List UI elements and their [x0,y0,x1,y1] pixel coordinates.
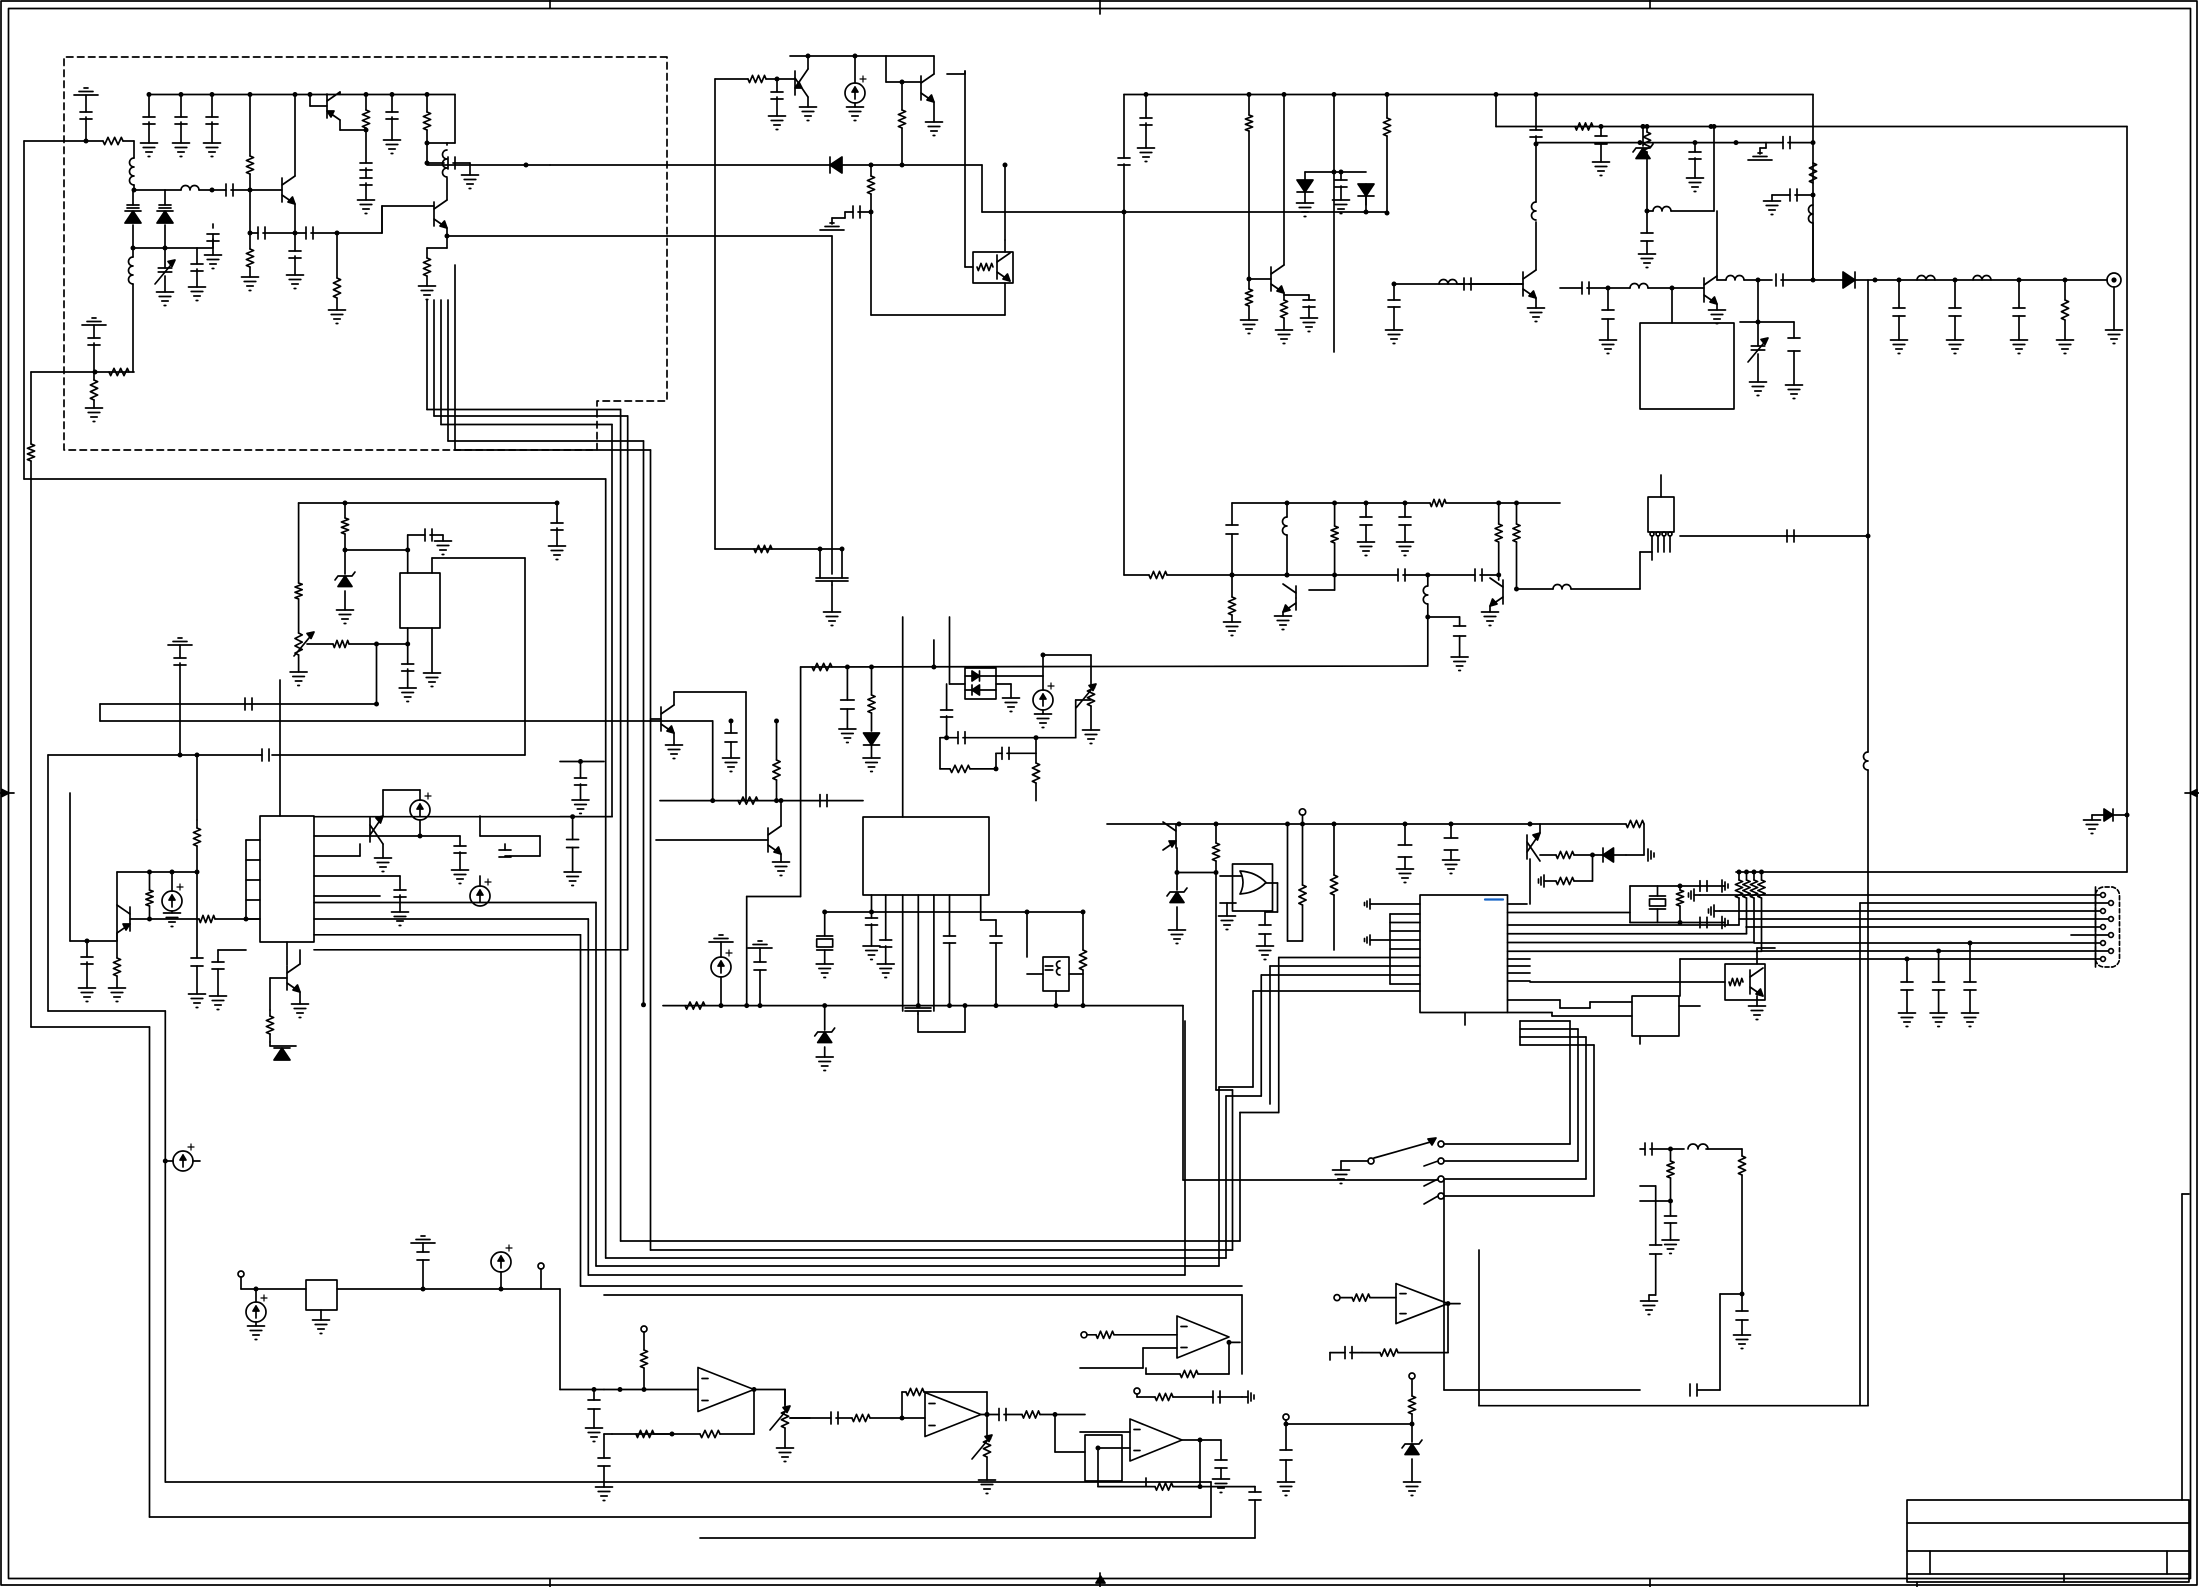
DB9 spine [2095,887,2097,967]
c1200 stem [1220,1440,1222,1460]
opto collector [1004,240,1006,252]
cluster y172 [1305,171,1366,173]
switch wires [1444,1143,1570,1145]
capacitor C14 [390,92,395,97]
ptt zener [1411,1424,1413,1442]
diode D8 [864,733,880,745]
inductor L1 [133,141,135,158]
wire c38 right [1036,737,1076,739]
opamp F out [1182,1439,1221,1441]
br cap3 [1741,1294,1743,1311]
capacitor C33 [499,849,511,851]
wire y126 [1496,126,2127,128]
cap col 1899 [1898,280,1900,308]
transistor Q12 [1270,267,1272,291]
capacitor C1 [80,111,92,113]
resistor R17 [199,915,215,922]
ground tcxo [431,628,433,673]
diode D3 TX/RX switch [830,157,842,173]
q13 collector join [1716,276,1718,280]
zener D9 [824,1006,826,1030]
net 1446 [1215,1459,1227,1461]
wire 1334 down [1333,172,1335,352]
cap 1255 [1254,1487,1256,1492]
switch common [1368,1158,1374,1164]
vertical TX base [714,79,716,549]
wire y704 [100,703,377,705]
gate output [1266,882,1278,884]
wire y721 drop [712,721,714,801]
opamp A in [604,1389,698,1391]
pullup rail [1736,871,2127,873]
capacitor C13 [360,177,372,179]
diode D14 [1593,854,1604,856]
border tick left center [0,792,14,794]
opamp F fb [1097,1448,1099,1487]
if module U6 [1648,497,1674,532]
discriminator feed [1757,280,1759,322]
switch contacts [1438,1141,1444,1147]
bus to db9 1 [1508,924,1740,926]
resistor R14 [1575,123,1593,130]
bfo ind 1287 [1286,503,1288,517]
smeter in [1352,1294,1370,1301]
resistor R13 [1385,92,1390,97]
inductor L7 [1809,205,1814,223]
bus to db9 [1508,933,1747,935]
q13b emitter [1535,298,1537,308]
transistor Q14 [1175,824,1177,848]
diode D12 [1843,272,1855,288]
isrc vol2 [165,1160,173,1162]
capacitor C17 [845,211,853,213]
q10r emitter [1540,854,1556,856]
or gate shape [1240,871,1266,894]
signal ground SG1 [84,87,88,89]
wire if out [479,816,481,836]
db9 wire9 [1680,958,2100,960]
pll out I [314,934,581,936]
bfo ind 1427 [1427,575,1429,586]
br r2 [1670,1149,1672,1161]
q11 wires [780,801,782,826]
q16 wires [1282,612,1284,616]
opamp E fb [1145,1368,1147,1374]
resistor R6 [336,233,338,278]
resistor R4 [248,92,253,97]
wire Q2 out [381,206,383,233]
MCU IC3 [1420,895,1508,1013]
resistor R19 [196,820,198,828]
capacitor C28 [174,657,186,659]
mcu right xtal net [1508,912,1631,914]
capacitor C34 [846,667,848,700]
bus wire E [454,265,456,450]
capacitor C24 [261,749,263,761]
cap 1695 [1694,143,1696,152]
bfo res 1334 [1334,503,1336,526]
switch arm [1374,1141,1434,1158]
wire trim top [1043,654,1091,656]
db9 wire8 [1762,950,2109,952]
mcu label [1485,898,1503,900]
zener D5 [1642,127,1644,147]
audio rail 1538 [700,1537,1255,1539]
feedback vert [1867,280,1869,752]
resistor R22 [871,667,873,695]
capacitor C16 [776,79,778,92]
bfo rail y503 [1232,502,1430,504]
q wire [1054,1415,1056,1453]
resistor R5 [249,233,251,249]
bypass capacitor C7 [210,92,215,97]
transistor Q8 [129,907,131,931]
zener D6 [344,550,346,574]
diode D11 [972,685,980,695]
b minus in [902,1417,925,1419]
cap col 1955 [1954,280,1956,308]
resistor R16 [344,503,346,518]
br ind [1671,1148,1685,1150]
bus wire F [605,479,607,1258]
audio vcc term [641,1326,647,1332]
stair2 [1508,1012,1553,1014]
wire 1496 up [1495,95,1497,127]
bus wire A [426,300,428,410]
opamp A [698,1368,754,1412]
capacitor C12 [360,162,372,164]
trimcap disc2 [1757,322,1759,346]
mcf input pin [1670,286,1675,291]
transistor Q6 [920,76,922,100]
module feed [1660,475,1662,497]
wire q9b c [382,790,384,816]
emitter cap [1284,294,1309,296]
sgnd db9c [1713,905,1715,917]
inductor L9 [1917,276,1935,281]
q13b rail [1535,95,1537,131]
wire osc bottom [31,371,134,373]
ptt wire [1286,1423,1412,1425]
cap tap1 [1766,142,1783,144]
ptt terminal [1283,1414,1289,1420]
x1124 cap [1123,95,1125,159]
wire after diode [1855,279,2107,281]
br gnd 1649 [1649,1294,1656,1296]
capacitor C11 [295,232,306,234]
resistor R8 [425,92,430,97]
IC2 pin b3 [902,895,904,1008]
sgnd cap column [758,940,762,942]
xtal sgnds [1721,880,1723,892]
q16 collector [1309,589,1335,591]
transistor Q4 [794,71,796,95]
filter net y912 [872,911,1084,913]
col604 [603,1434,605,1458]
transistor Q13 [1703,278,1705,302]
q13 emitter [1716,304,1718,310]
ptt cap [1285,1424,1287,1450]
opamp5 smeter [1396,1284,1448,1324]
resistor R27 [940,768,950,770]
border tick top center [1099,0,1101,14]
b fb [901,1392,903,1418]
bfo caph1 [1397,569,1399,581]
pullup resistors [1735,880,1742,898]
db9 wire5 [1746,926,2100,928]
bfo cap gnd1 [1365,503,1367,517]
quad loop [917,1014,919,1032]
mcu left bus J [1253,990,1420,992]
IC2 pin b1 [871,895,873,918]
resistor R24 [776,721,778,760]
emitter Q3 [446,228,448,248]
db9 cap1 [1906,959,1908,982]
bus resistor [685,1002,705,1009]
audio in terminal [238,1271,244,1277]
br loop [1720,1293,1742,1295]
resistor R34 [1333,824,1335,875]
IC2 mixer IF [863,817,989,895]
transistor Q9b [369,818,371,842]
xtal X1 [824,912,826,936]
bfo caph2 [1428,574,1475,576]
node tank [132,188,137,193]
IC1 right wires upper [314,835,420,837]
bus wire B [433,300,435,416]
quad coil [905,1007,931,1009]
q at 661 [660,707,662,731]
title block [1907,1500,2189,1582]
diode D4 [1364,210,1369,215]
capacitor C3b [207,233,219,235]
bus wire D [447,300,449,441]
wire y213 [1124,211,1387,213]
q10 wires [299,950,301,964]
br wire 1201 [1640,1200,1671,1202]
opamp B out [981,1414,999,1416]
emitter Q6 [933,102,935,122]
RX rail [1124,94,1813,96]
q15 collector load [1516,503,1518,524]
stair3 [1464,1013,1466,1026]
cap 1341 [1340,172,1342,180]
wire if top [117,871,197,873]
opamp E in [1081,1332,1087,1338]
db9 wire2 [1860,902,2108,904]
bfo cap gnd2 [1404,503,1406,517]
xtal X2 [1630,885,1725,887]
resistor R7 [364,92,369,97]
resistor R15 [298,503,300,583]
cap 1405 [1404,824,1406,845]
wire ref vcc [299,502,557,504]
stair1 [1508,999,1561,1001]
wire y549 [715,548,820,550]
base line y284 [1394,283,1523,285]
opamp B [925,1393,981,1437]
varactor D1 [132,190,134,205]
capacitor C29 [81,956,93,958]
capacitor C18 [1144,92,1149,97]
wire y755 left [48,754,180,756]
cap 1394 [1393,284,1395,300]
resistor R29 [1812,162,1814,164]
eeprom right [1679,1005,1700,1007]
q15 wires [1489,606,1491,612]
pll out G [314,902,596,904]
bfo ind [1439,280,1457,285]
capacitor C15 [425,141,430,146]
opamp F in2 [1098,1447,1130,1449]
IC1 PLL synthesizer [260,816,314,942]
tcxo out wire [431,558,433,573]
border tick right center [2185,792,2199,794]
mcu left bus H [1270,965,1420,967]
bfo cap 1232 [1231,503,1233,525]
varactor D2 [164,190,166,205]
wire ref div [376,644,378,704]
mic isrc [254,1287,259,1292]
optocoupler U9 [1725,964,1765,1000]
resistor R35 [1556,851,1574,858]
zener D13 [1176,848,1178,873]
gate inputs [1220,875,1242,877]
collector Q2 [339,92,341,95]
transistor Q10 [286,966,288,990]
mcf box [1640,323,1734,409]
resistor R36 [1544,880,1556,882]
capacitor C40 [1646,211,1648,233]
opamp E [1177,1316,1229,1358]
resistor R21 [812,663,832,670]
capacitor C8 [225,184,227,196]
wire x70 [69,793,71,941]
resistor R12b [1248,279,1250,289]
U9 wires [1530,981,1725,983]
transistor Q16 [1295,586,1297,610]
border tick bottom quarter [549,1579,551,1587]
sideways gnd D14 [1647,849,1649,861]
bfo y665 out [1427,617,1429,665]
osc VCC bus [149,94,455,96]
resistor R33 [1302,824,1304,885]
rail y667 [801,666,1428,667]
resistor R25 [1082,912,1084,950]
cap 604b [604,1433,612,1435]
trimmer capacitor CV1 [164,248,166,268]
isrc CS3 [419,790,421,800]
switch risers [1520,1020,1570,1022]
wire varactor bottoms [133,247,197,249]
db9 wire6 [2071,934,2108,936]
resistor R18 [149,872,151,890]
transistor Q3 [433,202,435,226]
wire Q4-Q6 [885,56,887,82]
wire 746 down [745,692,747,801]
sgnd db9a [1693,889,1695,901]
transistor Q11 [767,828,769,852]
eeprom bottom [1639,1036,1641,1044]
diode D10 [972,671,980,681]
signal ground SG3 [844,212,846,218]
smeter cap [1344,1347,1346,1359]
resistor R1 [103,137,123,144]
pll out H [314,918,588,920]
mixer input line [660,800,863,802]
capacitor C32 [420,835,460,837]
IC1 left pins [246,839,260,841]
trim A [784,1390,786,1409]
tcxo module U4 [400,573,440,628]
resistor R20 [269,1010,271,1016]
q15 out [1516,588,1553,590]
capacitor C3 [197,247,213,249]
vox line 1397 [1134,1388,1140,1394]
db9 wire1 [1700,894,2100,896]
fb loop A [612,1433,700,1435]
bundle cap K2 [560,816,612,818]
branch cap 54 [30,478,32,480]
wiper A out [790,1417,810,1419]
base Q8 wire [130,918,199,920]
capacitor C31 [399,876,401,890]
cap col 2019 [2018,280,2020,308]
emitter Q1 [294,204,296,233]
gate gnd [1226,903,1228,916]
wire vtune [24,140,103,142]
resistor R26 [1035,753,1037,763]
transistor Q2 [326,94,328,118]
mcu right stubs [1508,958,1531,960]
IC2 pin b2 [885,895,887,940]
resistor R23 [738,797,758,804]
open term 541 [538,1263,544,1269]
wire rail up2 [933,640,935,667]
bfo input line y575 [1124,574,1149,576]
resistor R11 [870,165,872,176]
rail end drop [1812,95,1814,281]
wire 1216 down [1215,873,1217,1091]
capacitor C10 [294,233,296,251]
wire 1287 [1287,824,1289,941]
br caph [1644,1143,1646,1155]
collector Q8 [116,933,118,958]
collector Q4 up [807,56,809,69]
resistor R2 [109,368,129,375]
optocoupler feed [964,71,966,267]
left cap col [217,950,219,962]
pullup drops [1738,898,1740,925]
wire rail drop left [800,667,802,897]
emitter Q8 [116,905,118,941]
cap B in [830,1412,832,1424]
output line [1717,279,1726,281]
ptt r [1409,1373,1415,1379]
emitter Q12 [1283,293,1285,300]
IC2 pin b7 [980,895,982,920]
q10r collector [1539,824,1541,833]
capacitor C35 [819,795,821,807]
opamp C gnd [1145,1478,1147,1486]
smeter fb [1362,1352,1380,1354]
transistor Q15 [1498,503,1500,524]
wire 2127 [2126,127,2128,873]
mcu rail [1107,823,1530,825]
mcu left bus I [1261,974,1420,976]
IC2 pin b5 [933,895,935,1008]
collector Q12 [1283,95,1285,266]
